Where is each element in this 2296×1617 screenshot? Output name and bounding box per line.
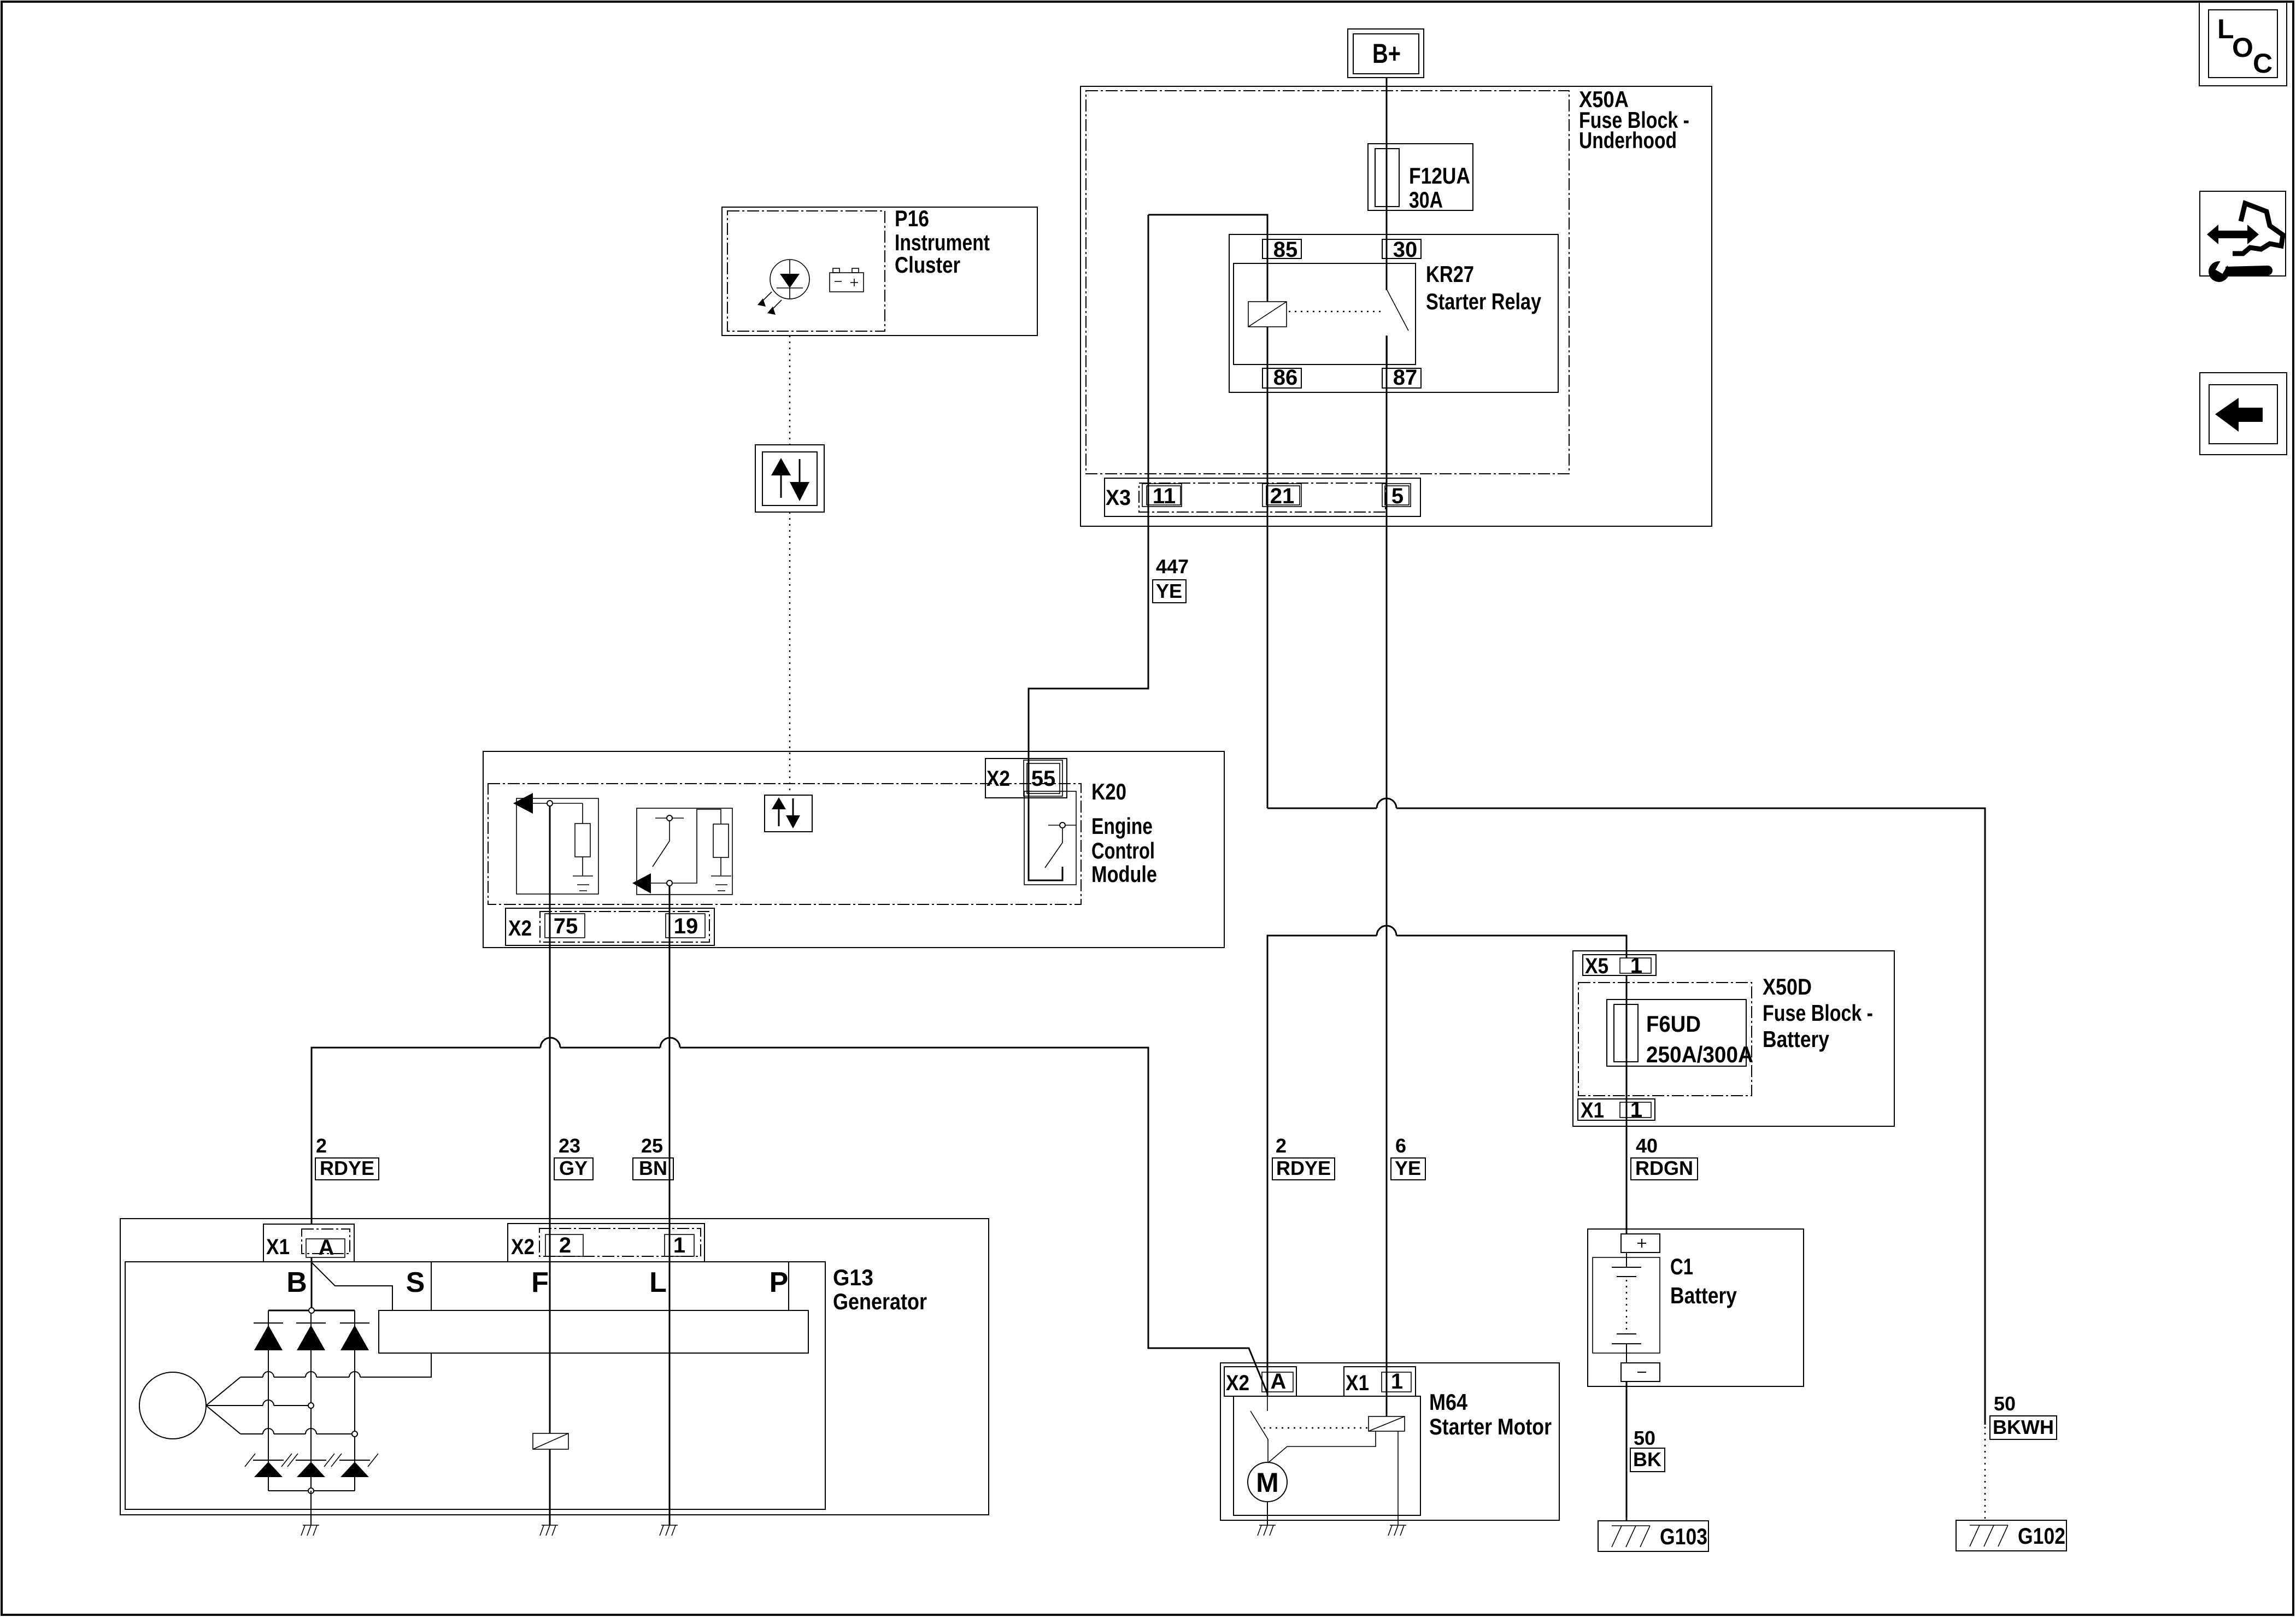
label 50 BKWH (1990, 1392, 2057, 1439)
symbol serial-data arrows (755, 445, 824, 512)
svg-text:G13: G13 (833, 1265, 873, 1290)
module K20 outline (483, 751, 1224, 948)
svg-text:C1: C1 (1670, 1254, 1693, 1279)
node bottom bus (308, 1488, 314, 1493)
fuse F12UA 30A (1368, 144, 1473, 210)
phase wire 1 (hops all columns) (240, 1353, 431, 1377)
relay switch contact (1387, 290, 1408, 368)
rectifier column 1 (268, 1310, 269, 1491)
connector X2 pins 2 1 (508, 1224, 704, 1262)
wire 2 RDYE starter to fuse block battery (1267, 936, 1626, 1396)
pin 30 (1382, 238, 1421, 262)
terminal + (1621, 1234, 1660, 1253)
svg-text:Underhood: Underhood (1579, 127, 1677, 153)
svg-text:X2: X2 (511, 1235, 535, 1259)
icon diagnostic (arrows + wrench) (2200, 191, 2286, 282)
svg-text:2: 2 (316, 1134, 327, 1157)
diode top 2 (296, 1323, 326, 1350)
wire 50 BK battery to ground (1626, 1381, 1628, 1521)
svg-text:1: 1 (1391, 1369, 1403, 1393)
terminal letters B S F L P (286, 1267, 788, 1298)
K20 input cell (pin 75) (513, 793, 598, 894)
svg-text:50: 50 (1634, 1427, 1655, 1449)
svg-text:X3: X3 (1106, 486, 1131, 510)
terminal - (1621, 1363, 1660, 1381)
pin 21 (1262, 484, 1301, 508)
connector X1 pin A (263, 1224, 354, 1262)
svg-text:1: 1 (673, 1233, 685, 1257)
svg-text:GY: GY (559, 1157, 588, 1179)
terminal tick P (788, 1262, 789, 1310)
svg-text:X1: X1 (266, 1235, 290, 1259)
node B+ feed (1348, 29, 1424, 78)
label M64 Starter Motor (1429, 1389, 1552, 1439)
svg-text:87: 87 (1393, 366, 1418, 390)
relay coil KR27 (1248, 302, 1287, 327)
svg-text:2: 2 (559, 1233, 571, 1257)
wire 23 GY K20 pin 75 to generator F (549, 806, 551, 1433)
svg-text:21: 21 (1270, 484, 1295, 508)
svg-text:RDYE: RDYE (320, 1157, 374, 1179)
svg-text:K20: K20 (1091, 779, 1126, 804)
node top bus (309, 1308, 314, 1313)
wire hop arc over L wire (660, 1038, 680, 1048)
pin 5 (1382, 484, 1411, 508)
icon LOC (location) (2199, 2, 2287, 86)
label X50A Fuse Block - Underhood (1579, 86, 1689, 153)
svg-text:A: A (1271, 1369, 1287, 1393)
svg-text:KR27: KR27 (1426, 261, 1474, 287)
svg-text:Starter Relay: Starter Relay (1426, 289, 1542, 314)
wire F ground lead (549, 1449, 551, 1525)
svg-text:1: 1 (1630, 954, 1642, 978)
svg-text:YE: YE (1156, 580, 1182, 602)
relay KR27 outline (1229, 234, 1558, 392)
regulator box (379, 1310, 808, 1353)
svg-text:X2: X2 (508, 916, 532, 940)
phase wire 2 (hop col1, node col2) (240, 1405, 311, 1406)
svg-text:G103: G103 (1660, 1524, 1707, 1549)
svg-text:Cluster: Cluster (895, 252, 960, 278)
svg-text:Engine: Engine (1091, 813, 1153, 839)
svg-text:447: 447 (1156, 555, 1189, 578)
wire relay 87 through X3 pin 5 down to M64 X1-1 (1386, 336, 1388, 1416)
svg-text:X50D: X50D (1763, 974, 1812, 999)
svg-text:25: 25 (641, 1134, 663, 1157)
fuse block X50A outline (1081, 86, 1712, 526)
ground G102 (1956, 1520, 2066, 1551)
label 2 RDYE (starter side) (1272, 1134, 1335, 1180)
connector X2 pins 75 19 block (506, 908, 714, 945)
wire dotted P16 to arrow symbol (789, 336, 790, 445)
wire B ground lead (310, 1491, 312, 1525)
svg-text:19: 19 (674, 914, 698, 938)
svg-text:S: S (406, 1267, 425, 1298)
svg-text:Battery: Battery (1670, 1283, 1737, 1308)
phase wire 3 (hops col1 col2, node col3) (240, 1433, 355, 1434)
label K20 Engine Control Module (1091, 779, 1157, 887)
battery C1 outline (1588, 1229, 1804, 1386)
solenoid jog to motor (1268, 1431, 1376, 1463)
svg-text:Generator: Generator (833, 1289, 927, 1314)
fuse block X50D outline (1573, 951, 1894, 1126)
module P16 outline (722, 207, 1037, 336)
label KR27 Starter Relay (1426, 261, 1542, 314)
wire relay 86 to X3 pin 21 down (1267, 327, 1269, 808)
K20 switch cell (pin 19) (632, 808, 732, 895)
connector X1 pin 1 (1344, 1367, 1416, 1396)
indicator LED symbol (757, 260, 809, 315)
ground generator case (B) (301, 1525, 319, 1536)
wire 447 YE from X3 pin 11 to K20 X2-55 (1029, 215, 1148, 798)
wire B+ to fuse to relay 30 (1386, 78, 1388, 290)
svg-text:M: M (1256, 1467, 1279, 1498)
rectifier column 3 (354, 1310, 355, 1491)
fuse F6UD (1607, 999, 1746, 1066)
mechanical link dotted (1264, 1427, 1367, 1428)
starter switch contact (1250, 1392, 1268, 1463)
field coil F (533, 1433, 568, 1449)
label X50D Fuse Block - Battery (1763, 974, 1873, 1052)
motor ground lead (1267, 1502, 1268, 1525)
svg-text:F: F (531, 1267, 549, 1298)
svg-text:23: 23 (559, 1134, 580, 1157)
solenoid ground lead (1397, 1431, 1399, 1525)
node phase 3 (352, 1431, 357, 1437)
pin 85 (1262, 238, 1301, 262)
wire 40 RDGN fuse to battery (1626, 975, 1628, 1234)
pin 11 (1142, 484, 1182, 508)
label 25 BN (633, 1134, 673, 1180)
svg-text:40: 40 (1636, 1134, 1658, 1157)
svg-text:X2: X2 (986, 767, 1010, 791)
label 2 RDYE (generator side) (315, 1134, 379, 1180)
svg-text:Control: Control (1091, 838, 1155, 863)
solenoid coil (1369, 1416, 1405, 1431)
stator winding circle (139, 1372, 206, 1439)
svg-text:P: P (770, 1267, 789, 1298)
svg-text:X2: X2 (1226, 1371, 1249, 1395)
svg-text:6: 6 (1395, 1134, 1406, 1157)
label 6 YE (1391, 1134, 1425, 1180)
svg-text:YE: YE (1395, 1157, 1421, 1179)
svg-text:Instrument: Instrument (895, 230, 990, 255)
diode top 3 (340, 1323, 369, 1350)
connector X2 pin A (1224, 1367, 1296, 1396)
svg-text:F12UA: F12UA (1409, 163, 1470, 189)
svg-text:Battery: Battery (1763, 1026, 1830, 1052)
mechanical link (dotted) (1289, 311, 1381, 312)
wire dotted arrow symbol to K20 (789, 512, 790, 795)
svg-text:P16: P16 (895, 205, 929, 231)
svg-text:B+: B+ (1372, 38, 1401, 69)
svg-text:250A/300A: 250A/300A (1646, 1042, 1753, 1067)
svg-text:A: A (319, 1236, 334, 1260)
svg-text:Module: Module (1091, 861, 1157, 887)
connector X3 row (1105, 478, 1420, 516)
label 23 GY (554, 1134, 593, 1180)
svg-text:BK: BK (1633, 1448, 1661, 1471)
ground G103 (1598, 1521, 1708, 1551)
pin 87 (1382, 366, 1421, 390)
label 447 YE (1153, 555, 1189, 603)
svg-text:BN: BN (639, 1157, 667, 1179)
starter motor M64 outline (1220, 1363, 1559, 1520)
wire hop arc over F wire (541, 1038, 560, 1048)
svg-text:F6UD: F6UD (1646, 1011, 1701, 1037)
label C1 Battery (1670, 1254, 1737, 1308)
svg-text:Fuse Block -: Fuse Block - (1763, 1000, 1873, 1026)
diode bottom 3 (avalanche) (331, 1454, 378, 1477)
svg-text:2: 2 (1276, 1134, 1287, 1157)
svg-text:30A: 30A (1409, 187, 1443, 213)
diode top 1 (254, 1323, 283, 1350)
stator phase leads (206, 1377, 240, 1434)
value label F12UA 30A (1409, 163, 1470, 213)
generator G13 outline (120, 1219, 989, 1515)
svg-text:50: 50 (1994, 1392, 2016, 1415)
svg-text:BKWH: BKWH (1993, 1416, 2054, 1438)
svg-text:55: 55 (1031, 767, 1056, 791)
rectifier bottom bus (268, 1490, 355, 1491)
ground starter solenoid (1388, 1525, 1406, 1536)
svg-text:X1: X1 (1346, 1371, 1369, 1395)
rectifier column 2 (310, 1310, 312, 1491)
node junction pin75 (547, 801, 553, 806)
svg-text:L: L (2217, 14, 2234, 44)
battery telltale symbol (830, 268, 864, 292)
label P16 Instrument Cluster (895, 205, 990, 278)
svg-text:11: 11 (1153, 484, 1176, 508)
wire B inside generator (311, 1257, 313, 1310)
diode bottom 2 (avalanche) (287, 1454, 334, 1477)
ground lamp driver (L) (660, 1525, 678, 1536)
svg-text:O: O (2232, 32, 2253, 63)
node phase 2 (308, 1403, 314, 1408)
connector X2 pin 55 block (985, 758, 1067, 798)
svg-text:B: B (286, 1267, 307, 1298)
wire long run to right (hops over B+ wire) (1267, 808, 1985, 1425)
connector X5 pin 1 (1583, 954, 1656, 978)
wire 25 BN K20 pin 19 to generator L (669, 886, 671, 1509)
terminal tick S (431, 1262, 432, 1310)
pin 86 (1262, 366, 1301, 390)
svg-text:RDYE: RDYE (1276, 1157, 1331, 1179)
label G13 Generator (833, 1265, 927, 1314)
svg-text:X5: X5 (1585, 954, 1608, 978)
svg-text:30: 30 (1393, 238, 1418, 262)
battery cells (1612, 1253, 1641, 1363)
wire hop arc over B+ wire at battery feed (1377, 926, 1396, 936)
node junction driver (1060, 822, 1065, 828)
svg-text:1: 1 (1630, 1098, 1642, 1122)
svg-text:C: C (2253, 48, 2272, 79)
diode bottom 1 (avalanche) (245, 1454, 292, 1477)
symbol serial-data arrows small (765, 795, 812, 832)
svg-text:M64: M64 (1429, 1389, 1468, 1415)
node junction switch top (667, 815, 672, 821)
connector X1 pin 1 (1578, 1098, 1655, 1122)
svg-text:L: L (649, 1267, 667, 1298)
svg-text:Starter Motor: Starter Motor (1429, 1414, 1552, 1439)
wire 2 RDYE generator B to starter jog (312, 1048, 1267, 1393)
svg-text:75: 75 (554, 914, 578, 938)
svg-text:85: 85 (1273, 238, 1298, 262)
K20 driver cell (pin 55) (1024, 791, 1076, 885)
wire hop arc over B+ wire (1377, 798, 1396, 808)
ground starter motor (1258, 1525, 1276, 1536)
svg-text:86: 86 (1273, 366, 1298, 390)
wire dotted segment to G102 (1984, 1427, 1986, 1521)
svg-text:G102: G102 (2018, 1523, 2065, 1549)
wire circuit 447 top jog to relay 85 (1148, 215, 1267, 302)
label 40 RDGN (1631, 1134, 1698, 1180)
wire L ground lead (669, 1509, 671, 1525)
label 50 BK (1630, 1427, 1665, 1472)
rectifier top bus (268, 1310, 355, 1312)
svg-text:5: 5 (1391, 484, 1404, 508)
icon back arrow (2200, 373, 2287, 455)
svg-text:RDGN: RDGN (1635, 1157, 1693, 1179)
value label F6UD 250A/300A (1646, 1011, 1753, 1067)
motor armature M (1248, 1462, 1287, 1502)
wire S sense jog (312, 1262, 392, 1310)
svg-text:X1: X1 (1581, 1098, 1604, 1122)
ground field winding (F) (540, 1525, 558, 1536)
node junction switch bottom (667, 880, 672, 886)
